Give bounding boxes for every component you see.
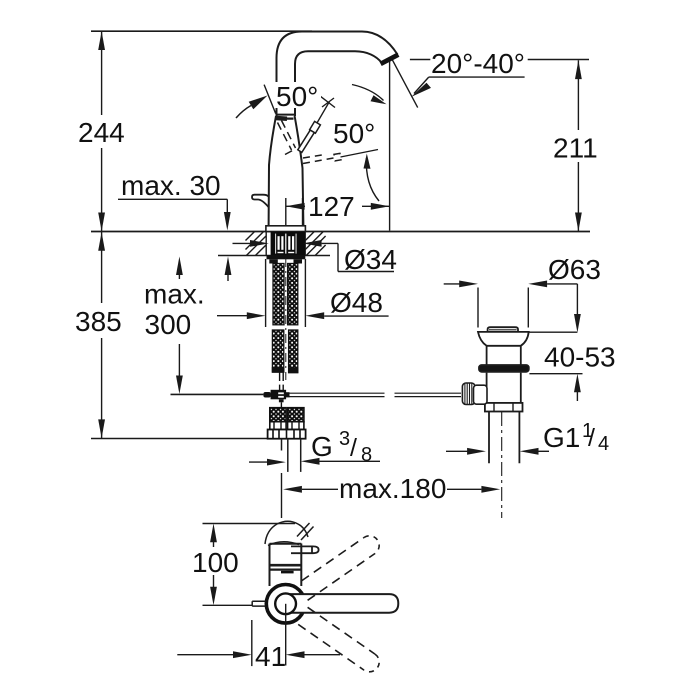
flange [478,332,529,346]
lock nut facets [493,403,495,412]
hoses lower segment [272,330,283,372]
svg-text:244: 244 [78,117,125,148]
svg-text:41: 41 [255,641,286,672]
knurled knob on drain [462,383,475,405]
top view: spout bar solid [286,594,399,613]
top view: rod stub left [252,601,265,606]
knob arm [474,385,488,404]
svg-text:300: 300 [145,309,192,340]
pivot cross marker [303,96,336,147]
vertical pull rod through coupler [280,371,284,391]
svg-text:max. 30: max. 30 [121,170,221,201]
arrow 211 top [575,60,582,79]
handle base dark wedge [276,117,294,119]
50deg leg line from dashed lever [341,150,379,158]
faucet body front view [269,115,304,226]
joint line under riser [276,114,296,116]
svg-text:127: 127 [308,191,355,222]
arc arrow right of 50 [352,85,384,101]
label 211 [551,130,603,164]
arc arrow left of 50 [236,106,251,119]
rod coupler [263,390,289,400]
top view: body block [269,544,302,587]
top view: lever pin to right [291,546,319,553]
top view: dashed spout down position [298,607,379,672]
dimension 100 [203,523,296,525]
neck [487,346,521,365]
arrow 385 bottom [98,419,105,438]
lock nut [485,403,523,412]
deck hatching right [305,232,325,256]
shank washer and nuts [267,255,306,259]
max30 lower arrow [225,257,232,276]
body right edge [295,116,304,226]
top extension line [91,30,312,32]
dimension max180 [281,473,283,518]
cap dome [488,327,518,332]
dimension arrows diam34 [233,240,395,272]
svg-text:211: 211 [553,133,598,164]
spout tip vertical extension line to 127 [389,60,391,231]
handle hidden position dashes [278,121,296,155]
arrow 244 top [98,31,105,50]
tailpipe [489,412,519,464]
svg-text:20°-40°: 20°-40° [431,48,525,79]
svg-text:4: 4 [598,433,609,455]
deck hole edges [265,232,267,256]
label 50deg (upper) [275,81,321,112]
lower body [487,373,521,403]
drain pop-up waste body [478,327,529,463]
50deg angled line left of text [264,85,276,114]
hose center dash line [285,258,287,380]
hex band [268,430,306,439]
faucet base plate [266,226,306,232]
dimension 127 [286,198,390,225]
main countertop reference line [91,231,590,233]
arrow 211 bottom [575,213,582,232]
top view: escutcheon circles [266,585,305,624]
pop-up rod horizontal [171,393,462,396]
svg-text:G: G [311,431,333,462]
svg-text:Ø63: Ø63 [548,254,601,285]
handle open position dashed (to right) [303,153,341,163]
dimension 211 line [410,60,589,232]
svg-text:385: 385 [75,306,122,337]
dimension 385 line [101,232,103,303]
svg-text:8: 8 [361,444,372,466]
pop-up rod lever on body left [252,195,269,207]
label 20-40 with leader [414,77,525,93]
supply pipe below [282,439,301,472]
hoses upper segment [273,264,284,325]
dimension G38 arrows [249,461,268,463]
dimension G114 [446,450,468,452]
svg-text:3: 3 [339,428,350,450]
drain centerline [501,412,503,518]
deck hatching left [246,232,267,256]
arc arrow for lower 50 [366,158,379,201]
spout outlet end face [381,55,399,64]
centerline below circle [285,604,287,666]
dimension arrows diam48 [217,315,247,317]
dimension 41 [251,620,253,666]
svg-text:100: 100 [192,547,239,578]
svg-text:max.: max. [144,279,205,310]
drain: diam63 dimension [444,283,461,285]
svg-text:50°: 50° [276,81,318,112]
top view: dashed spout up position [302,536,380,601]
20-40 extension line to 211 [410,59,430,61]
svg-text:/: / [588,424,595,452]
bottom extension line (385 bottom) [91,438,269,440]
diam48 extension lines [265,259,267,327]
faucet spout outline [277,32,398,117]
svg-text:40-53: 40-53 [544,342,616,373]
hose end caps [272,367,285,373]
arrow 385 top [98,232,105,251]
arrowhead 20-40 leader [411,83,431,97]
top view: handle paddle sketch [265,521,314,545]
G38 connection nuts [268,408,306,439]
deck bottom line [218,255,330,257]
svg-text:max.180: max.180 [339,473,446,504]
spout tip angled reference line [391,57,418,107]
lever handle (raised) [298,121,321,152]
svg-text:G1: G1 [543,422,580,453]
ring flange [479,365,529,372]
svg-text:/: / [350,434,357,462]
svg-text:Ø48: Ø48 [330,287,383,318]
threaded shank with hoses (section) [271,232,305,255]
diam63 extension lines [477,288,479,328]
arrow 244 bottom [98,213,105,232]
dimension 40-53 [576,284,578,314]
body left edge [269,116,276,226]
svg-text:Ø34: Ø34 [344,244,397,275]
dimension 244 line [101,31,103,115]
svg-text:50°: 50° [333,118,375,149]
